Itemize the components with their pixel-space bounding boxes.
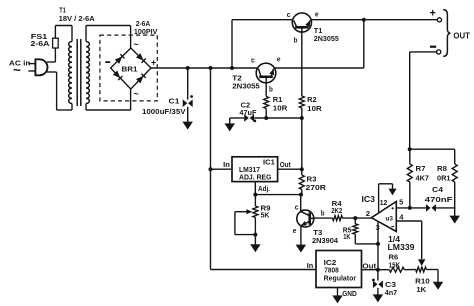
label C4 xyxy=(425,185,454,204)
label R10 xyxy=(415,277,430,295)
wire IC3 pin3 xyxy=(377,222,379,270)
label R6 xyxy=(389,253,401,270)
ground IC2 xyxy=(332,295,343,303)
wire plug to fuse xyxy=(47,48,56,62)
node IC1 In junction xyxy=(209,167,213,171)
svg-text:c: c xyxy=(295,202,299,211)
label IC1 xyxy=(239,157,275,181)
label T3 xyxy=(312,228,339,245)
terminal OUT+ xyxy=(437,18,441,22)
label T2 xyxy=(232,74,259,91)
node R5 top junction xyxy=(353,216,357,220)
transistor T1 2N3055 xyxy=(292,13,311,32)
bridge BR1 outline xyxy=(111,48,151,89)
svg-text:18V / 2-6A: 18V / 2-6A xyxy=(59,14,96,23)
wire plug to primary bottom xyxy=(47,72,72,110)
svg-text:~: ~ xyxy=(134,89,139,99)
svg-text:Out: Out xyxy=(280,160,291,169)
wire secondary top to bridge xyxy=(86,26,131,49)
wire C2 to ground xyxy=(229,118,231,124)
wire R1 bottom xyxy=(265,109,267,119)
label C3 xyxy=(385,280,398,297)
bridge polarity marks xyxy=(105,40,156,100)
label T1 pins xyxy=(287,9,319,44)
label IC2 In xyxy=(307,261,314,270)
fuse FS1 xyxy=(53,38,59,48)
svg-text:470nF: 470nF xyxy=(425,195,454,204)
wire R10 to ground xyxy=(426,270,438,283)
resistor R7 xyxy=(407,149,412,208)
capacitor C2 xyxy=(244,114,256,122)
label OUT- sign xyxy=(430,46,436,48)
svg-text:In: In xyxy=(307,261,314,270)
svg-text:2K2: 2K2 xyxy=(331,206,342,215)
label IC3 xyxy=(362,194,376,204)
svg-text:b: b xyxy=(269,85,273,94)
svg-text:In: In xyxy=(223,160,230,169)
label T1 xyxy=(314,26,339,43)
wire secondary bottom to bridge xyxy=(86,89,131,111)
wire R5 top xyxy=(354,218,356,224)
label OUT xyxy=(453,30,470,40)
wire R4 to IC3 pin2 xyxy=(343,217,372,219)
node feed junction xyxy=(209,66,213,70)
node T1 emitter junction xyxy=(362,18,366,22)
label IC3 u3 xyxy=(386,216,394,223)
label R2 xyxy=(307,95,322,113)
svg-text:5K: 5K xyxy=(261,211,271,220)
label BR1 xyxy=(122,65,138,74)
transformer secondary winding xyxy=(86,42,89,104)
wire R6 to R10 xyxy=(404,269,415,271)
svg-text:12: 12 xyxy=(380,198,388,207)
svg-text:ADJ. REG: ADJ. REG xyxy=(239,173,272,182)
label IC2 Out xyxy=(362,262,376,271)
svg-text:IC1: IC1 xyxy=(263,157,275,166)
label R4 xyxy=(331,199,342,215)
svg-text:~: ~ xyxy=(13,63,21,78)
wire R9 bottom xyxy=(254,218,256,246)
resistor R3 xyxy=(299,169,304,194)
svg-text:GND: GND xyxy=(342,289,357,298)
wire R9 top xyxy=(254,195,256,206)
terminal OUT- xyxy=(437,50,441,54)
node R3 bottom junction xyxy=(299,193,303,197)
resistor R6 xyxy=(389,267,404,272)
wire raw DC feed xyxy=(211,68,317,270)
resistor R1 xyxy=(264,97,269,109)
svg-text:c: c xyxy=(287,10,291,19)
ground R10 xyxy=(433,282,444,290)
svg-text:C4: C4 xyxy=(432,185,444,194)
svg-text:4K7: 4K7 xyxy=(416,174,430,183)
label fuse FS1 xyxy=(31,32,51,48)
label R3 xyxy=(306,175,327,193)
bridge diode D2 xyxy=(136,53,146,63)
wire T3 base to R4 xyxy=(314,217,333,219)
svg-text:b: b xyxy=(321,208,325,217)
AC plug P1 xyxy=(28,59,47,75)
wire R5 bottom xyxy=(355,234,378,244)
potentiometer R9 xyxy=(253,206,258,218)
IC2 GND pin xyxy=(337,288,339,297)
svg-text:LM339: LM339 xyxy=(388,242,415,252)
capacitor C3 xyxy=(372,270,383,295)
label bridge rating xyxy=(134,19,158,36)
label OUT+ sign xyxy=(430,8,436,20)
label IC1 Out xyxy=(280,160,291,169)
label IC3 pin numbers xyxy=(366,198,405,233)
label 1/4 LM339 xyxy=(388,234,415,252)
transistor T3 2N3904 xyxy=(297,210,314,227)
resistor R5 xyxy=(353,224,358,234)
label IC1 In xyxy=(223,160,230,169)
regulator IC2 7808 box xyxy=(316,251,362,288)
node R5 junction xyxy=(376,242,380,246)
node R7 bottom junction xyxy=(408,206,412,210)
wire IC3 pin4 xyxy=(396,221,421,259)
bridge diode D3 xyxy=(113,70,123,80)
wire fuse to primary xyxy=(55,26,72,42)
label T2 pins xyxy=(251,55,281,94)
label R7 xyxy=(416,164,430,183)
label C1 xyxy=(142,97,186,117)
R10 wiper arrow xyxy=(418,259,426,266)
brace OUT xyxy=(443,10,450,57)
svg-text:R2: R2 xyxy=(307,95,317,104)
svg-text:2N3055: 2N3055 xyxy=(232,82,259,91)
R9 wiper xyxy=(235,209,256,235)
node riser junction xyxy=(230,66,234,70)
capacitor C1 xyxy=(182,68,193,130)
wire IC1 Adj xyxy=(255,182,301,195)
label IC1 Adj xyxy=(258,184,270,193)
svg-text:u3: u3 xyxy=(386,216,394,223)
label GND xyxy=(342,289,357,298)
ground C3 xyxy=(373,294,384,302)
IC3 input marks xyxy=(391,207,394,226)
svg-text:Regulator: Regulator xyxy=(324,274,357,283)
wire C2 line xyxy=(230,117,302,119)
svg-text:e: e xyxy=(293,226,297,235)
node R7 top junction xyxy=(408,147,412,151)
transformer primary winding xyxy=(69,42,72,104)
label transformer T1 xyxy=(59,6,96,24)
svg-text:+: + xyxy=(151,58,156,68)
svg-text:e: e xyxy=(277,55,281,64)
wire IC2 Out xyxy=(362,269,390,271)
svg-text:IC3: IC3 xyxy=(362,194,376,204)
ground C2 xyxy=(224,123,235,131)
wire DC+ rail xyxy=(150,67,258,69)
wire T3 collector xyxy=(300,195,302,212)
ground T3 xyxy=(296,245,307,253)
svg-text:R7: R7 xyxy=(416,164,426,173)
label R1 xyxy=(273,95,288,112)
svg-text:b: b xyxy=(294,35,298,44)
wire T2 base xyxy=(265,78,267,97)
svg-text:270R: 270R xyxy=(306,183,327,192)
wire top rail left xyxy=(232,19,293,21)
svg-text:2: 2 xyxy=(366,209,370,218)
node R2 bottom junction xyxy=(300,116,304,120)
node R1 bottom junction xyxy=(264,116,268,120)
IC3 pin 12 supply arrow xyxy=(379,184,397,213)
svg-text:1K: 1K xyxy=(343,232,351,241)
svg-text:OUT: OUT xyxy=(453,30,470,40)
svg-text:Adj.: Adj. xyxy=(258,184,270,193)
node LM317 Out junction xyxy=(300,167,304,171)
svg-text:BR1: BR1 xyxy=(122,65,138,74)
wire riser to top rail xyxy=(231,20,233,68)
svg-text:2-6A: 2-6A xyxy=(31,39,51,48)
wire IC1 In xyxy=(211,168,233,170)
svg-text:e: e xyxy=(315,9,319,18)
svg-text:47uF: 47uF xyxy=(239,108,256,117)
op-amp IC3 1/4 LM339 xyxy=(371,202,396,232)
label T3 pins xyxy=(293,202,325,235)
resistor R8 xyxy=(452,149,457,216)
svg-text:5: 5 xyxy=(399,198,403,207)
resistor R2 xyxy=(299,96,304,108)
svg-text:~: ~ xyxy=(134,40,139,50)
wire R2 to Out node xyxy=(301,108,303,169)
ground R9 xyxy=(250,244,261,252)
label AC in xyxy=(9,59,31,78)
regulator IC1 LM317 box xyxy=(232,157,278,182)
svg-text:15K: 15K xyxy=(389,260,401,269)
dashed box BR1 xyxy=(100,35,157,101)
svg-text:1K: 1K xyxy=(416,285,426,294)
transformer core xyxy=(77,39,81,106)
transistor T2 2N3055 xyxy=(256,63,276,83)
svg-text:C1: C1 xyxy=(169,97,180,106)
wire OUT- down xyxy=(410,52,437,149)
potentiometer R10 xyxy=(416,267,427,272)
ground R8 xyxy=(449,216,460,224)
node Adj junction xyxy=(253,193,257,197)
label R8 xyxy=(437,164,451,183)
label IC2 xyxy=(324,258,357,283)
node C3 junction xyxy=(376,268,380,272)
svg-text:c: c xyxy=(251,55,255,64)
wire T3 emitter xyxy=(300,226,302,245)
svg-text:2N3904: 2N3904 xyxy=(312,236,339,245)
node R9 wiper junction xyxy=(253,233,257,237)
svg-text:10R: 10R xyxy=(273,103,288,112)
svg-text:0R1: 0R1 xyxy=(437,174,451,183)
svg-text:1000uF/35V: 1000uF/35V xyxy=(142,107,186,116)
svg-text:+: + xyxy=(430,8,436,20)
capacitor C4 xyxy=(426,204,436,212)
wire IC3 pin5 xyxy=(396,207,454,209)
node C1 junction xyxy=(186,66,190,70)
wire T1 base xyxy=(301,28,303,96)
wire R7 R8 top rail xyxy=(410,148,455,150)
label R9 xyxy=(261,204,271,220)
wire IC1 Out xyxy=(278,168,302,170)
wire T2 emitter to jog xyxy=(274,67,363,69)
resistor R4 xyxy=(333,216,343,221)
bridge diode D1 xyxy=(115,54,125,64)
label R5 xyxy=(343,226,352,241)
wire T1 emitter jog xyxy=(363,20,365,68)
svg-text:2N3055: 2N3055 xyxy=(314,34,339,43)
label C2 xyxy=(239,100,256,117)
wire top rail right xyxy=(311,19,437,21)
svg-text:10R: 10R xyxy=(307,104,322,113)
bridge diode D4 xyxy=(136,74,146,84)
svg-text:R8: R8 xyxy=(437,164,447,173)
svg-text:4n7: 4n7 xyxy=(385,288,398,297)
